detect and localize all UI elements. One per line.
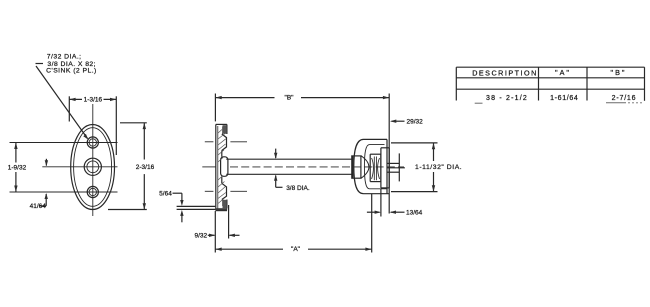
svg-text:C'SINK (2 PL.): C'SINK (2 PL.)	[46, 67, 97, 74]
svg-text:"B": "B"	[611, 68, 627, 77]
svg-text:2-3/16: 2-3/16	[136, 164, 155, 171]
svg-text:2-7/16: 2-7/16	[612, 95, 637, 102]
svg-text:"A": "A"	[291, 246, 301, 253]
svg-text:"B": "B"	[285, 95, 295, 102]
svg-text:38 - 2-1/2: 38 - 2-1/2	[486, 95, 528, 102]
svg-text:1-61/64: 1-61/64	[550, 95, 578, 102]
svg-text:29/32: 29/32	[407, 119, 424, 126]
svg-text:DESCRIPTION: DESCRIPTION	[472, 68, 538, 77]
svg-text:"A": "A"	[555, 68, 571, 77]
svg-text:7/32 DIA.;: 7/32 DIA.;	[47, 54, 82, 61]
svg-text:1-3/16: 1-3/16	[84, 97, 103, 104]
svg-text:13/64: 13/64	[406, 210, 423, 217]
svg-text:1-9/32: 1-9/32	[8, 165, 27, 172]
svg-text:5/64: 5/64	[159, 191, 172, 198]
svg-text:1-11/32" DIA.: 1-11/32" DIA.	[415, 164, 462, 171]
svg-text:41/64: 41/64	[30, 203, 47, 210]
svg-text:9/32: 9/32	[194, 233, 207, 240]
svg-text:3/8 DIA.: 3/8 DIA.	[286, 185, 310, 192]
